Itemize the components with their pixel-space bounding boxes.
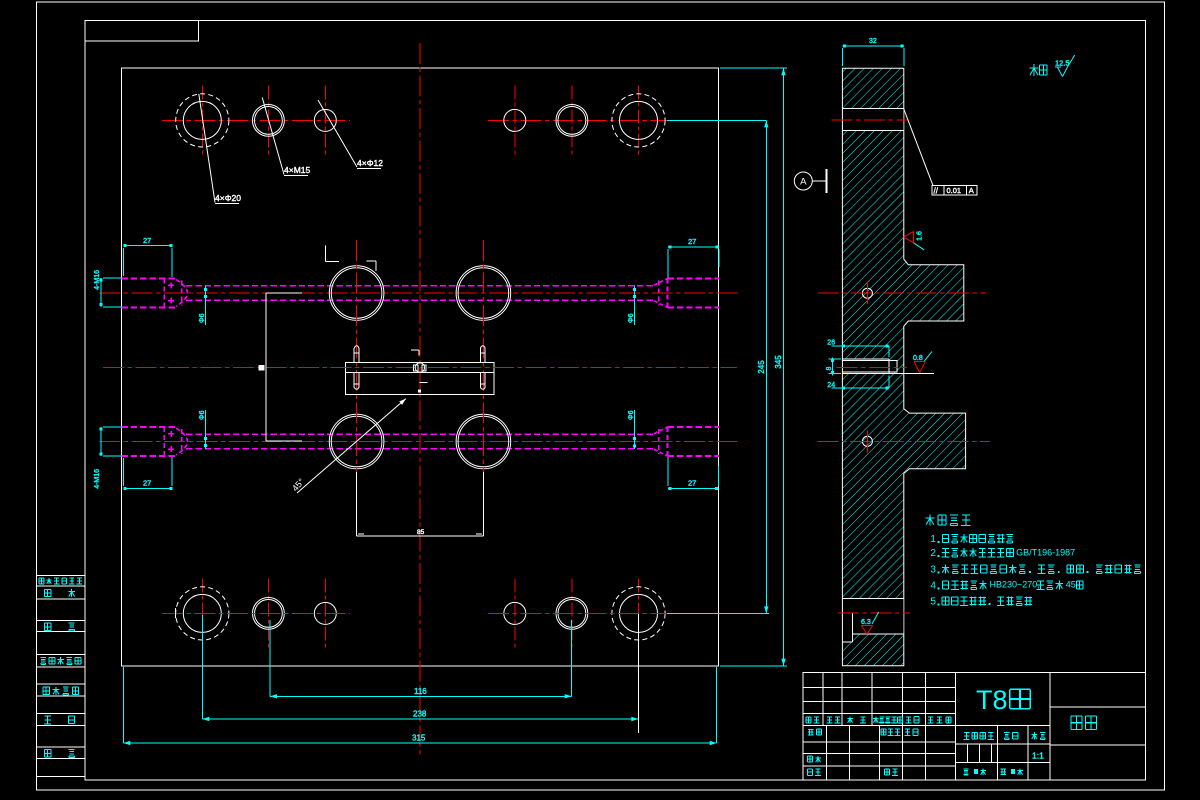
title zhongliang	[1004, 732, 1009, 734]
leader 4xPhi12	[318, 100, 357, 167]
title row shenhe	[808, 755, 813, 757]
title block outline	[803, 673, 1145, 780]
dim 27 top-right	[668, 246, 719, 248]
section core slot centerline	[836, 367, 906, 369]
title header biaoji	[806, 716, 811, 718]
roughness 6.3 at bottom band	[861, 624, 872, 626]
hole P12 bot circle	[504, 602, 526, 624]
dim 32 section top	[843, 45, 904, 47]
title part name xingxin	[1071, 715, 1082, 717]
hole M15 bot circles	[253, 598, 285, 630]
archive strip label ditu-zonghao	[43, 686, 49, 688]
dim 24 section slot bottom	[832, 387, 889, 389]
dim Phi6 row2 right	[633, 410, 635, 449]
hole P12 top circle	[504, 109, 526, 131]
counterbore M16 right y441 wide hidden lines	[668, 426, 720, 428]
dim 8 section slot height	[832, 358, 834, 376]
svg-text:27: 27	[688, 479, 696, 488]
small mark below center	[420, 382, 428, 384]
roughness 1.6 on right edge	[913, 231, 915, 243]
hole M15 top x571 centermark	[571, 85, 573, 155]
hole M15 bot x268 centermark	[267, 578, 269, 648]
guide hole x356 vertical centerline	[356, 240, 358, 505]
counterbore M16 left y441 inner line	[181, 429, 183, 454]
dim Phi6 row1 left	[204, 286, 206, 325]
dim 238 bottom	[202, 718, 638, 720]
svg-text:245: 245	[757, 360, 766, 374]
svg-text:Φ6: Φ6	[199, 410, 206, 420]
svg-text:8: 8	[826, 367, 833, 371]
svg-text:0.8: 0.8	[913, 355, 923, 362]
parallelism frame leader	[904, 109, 933, 186]
counterbore M16 left y293 inner line	[181, 280, 183, 305]
archive strip label ri-qi	[45, 749, 51, 751]
svg-text:4×Φ12: 4×Φ12	[357, 158, 383, 168]
title block right grid	[1050, 706, 1146, 708]
bottom hole row centerline left	[162, 612, 350, 614]
dim Phi6 row1 right	[634, 286, 636, 325]
svg-text://: //	[934, 186, 939, 195]
hole P12 top x514 centermark	[514, 85, 516, 155]
svg-text:T8: T8	[976, 685, 1008, 715]
dim 4-M16 top-left	[100, 278, 102, 307]
title row gongyi	[808, 768, 813, 770]
svg-text:4×M15: 4×M15	[284, 165, 310, 175]
hole P12 bot x514 centermark	[514, 578, 516, 648]
title jieduanbiaoji	[964, 732, 970, 734]
dim 27 bottom-left	[123, 487, 172, 489]
svg-text:32: 32	[869, 38, 877, 45]
core strip rect	[346, 363, 494, 395]
title row sheji	[808, 729, 814, 731]
small filled mark	[418, 389, 421, 392]
svg-text:1:1: 1:1	[1032, 751, 1044, 761]
center locating mark circle	[415, 363, 424, 372]
bottom hole row centerline right	[488, 612, 677, 614]
hole M15 bot x571 centermark	[571, 578, 573, 648]
dim 26 section slot top	[832, 345, 889, 347]
dim 27 bottom-right	[668, 487, 718, 489]
channel y293 centerline	[99, 292, 739, 294]
archive strip label jie-yong-jian-dengji	[39, 577, 44, 579]
svg-text:5: 5	[930, 597, 936, 608]
leader 4xM15	[262, 97, 284, 174]
top hole row centerline left	[162, 119, 350, 121]
counterbore M16 right y441 taper lines	[654, 427, 668, 434]
dim 345 right	[783, 68, 785, 666]
small mark above center	[411, 349, 419, 351]
plate vertical centerline	[419, 43, 421, 758]
partial view bracket 2	[366, 260, 376, 262]
channel y293 hidden lines	[186, 285, 654, 287]
svg-text:238: 238	[413, 710, 427, 719]
archive strip label qian-zi	[45, 715, 51, 717]
dim 315 bottom	[123, 742, 716, 744]
svg-text:27: 27	[143, 479, 151, 488]
title block middle grid	[956, 743, 1050, 745]
title gong zhang di zhang	[964, 768, 969, 770]
title row pizhun	[884, 768, 889, 770]
counterbore M16 right y441 bottom line	[667, 427, 669, 456]
title header nianyueri	[928, 716, 933, 718]
hole P20 top x638 centermark	[638, 85, 640, 155]
leader 4xPhi20	[199, 94, 215, 203]
hole P20 top circles	[620, 101, 658, 139]
archive strip rows	[37, 575, 85, 577]
svg-text:0.01: 0.01	[947, 186, 962, 195]
guide hole x356 y293 circles	[329, 266, 384, 321]
counterbore M16 left y293 wide hidden lines	[121, 278, 176, 280]
svg-text:HB230~270,: HB230~270,	[990, 580, 1040, 590]
core strip inner line	[346, 371, 494, 373]
svg-text:3: 3	[930, 565, 936, 576]
section flange1 centerline	[818, 292, 986, 294]
svg-text:315: 315	[412, 734, 426, 743]
hole P20 bot x638 centermark	[638, 578, 640, 648]
hole P12 top circle	[314, 109, 336, 131]
center locating mark squares	[414, 365, 418, 371]
counterbore M16 left y441 wide hidden lines	[121, 426, 176, 428]
svg-text:4-M16: 4-M16	[94, 270, 101, 290]
dim 27 top-left	[123, 244, 172, 246]
counterbore M16 left y441 drill tip arc	[176, 428, 188, 455]
svg-text:Φ6: Φ6	[199, 313, 206, 323]
ejector pin lower x482	[479, 372, 481, 387]
svg-text:A: A	[969, 186, 974, 195]
counterbore M16 left y293 drill tip arc	[176, 280, 188, 307]
svg-text:27: 27	[143, 236, 151, 245]
frame top-left block	[85, 20, 198, 41]
svg-text:2: 2	[930, 548, 936, 559]
guide hole x356 y441 circles	[329, 414, 384, 469]
dim 238 white extension right	[637, 614, 639, 733]
section core slot	[843, 359, 889, 373]
datum A symbol	[794, 172, 812, 190]
note qiyu (others)	[1033, 64, 1035, 76]
svg-text:26: 26	[827, 340, 835, 347]
svg-text:4-M16: 4-M16	[94, 469, 101, 489]
plate outline	[121, 68, 718, 666]
title row biaozhunhua	[881, 728, 886, 730]
ejector pin upper x356	[353, 348, 355, 363]
hole P20 bot circles	[183, 594, 221, 632]
hole M15 top x268 centermark	[267, 85, 269, 155]
title header genggai wenjianhao	[875, 716, 877, 723]
archive strip label jiu-ditu-zonghao	[40, 656, 46, 658]
svg-text:Φ6: Φ6	[628, 313, 635, 323]
section flange2 centerline	[818, 440, 991, 442]
channel y441 centerline	[99, 441, 739, 443]
counterbore M16 right y293 taper lines	[654, 279, 668, 286]
svg-text:6.3: 6.3	[861, 619, 871, 626]
45 degree leader	[297, 399, 406, 493]
svg-text:4×Φ20: 4×Φ20	[215, 193, 241, 203]
hole P20 bot x202 centermark	[201, 578, 203, 648]
section bottom hole band	[843, 599, 903, 634]
svg-text:27: 27	[688, 237, 696, 246]
hole P20 bot circles	[620, 594, 658, 632]
partial view bracket L	[325, 246, 327, 262]
hole M15 top circles	[253, 105, 285, 137]
archive strip label miao-jiao	[45, 622, 51, 624]
svg-text:A: A	[800, 176, 807, 187]
technical requirements title	[929, 515, 931, 526]
parallelism feature control frame	[932, 186, 977, 195]
hole M15 bot circles	[556, 598, 588, 630]
svg-text:1.6: 1.6	[917, 231, 924, 241]
counterbore M16 right y293 inner line	[658, 280, 660, 305]
section core slot surface line	[842, 373, 933, 375]
dim 245 right	[765, 120, 767, 613]
title block left grid	[803, 687, 955, 689]
core strip centerline	[103, 367, 737, 369]
guide hole x483 y441 circles	[456, 414, 511, 469]
top hole row centerline right	[488, 119, 677, 121]
svg-text:116: 116	[414, 687, 427, 696]
dim 4-M16 bottom-left	[100, 427, 102, 456]
svg-text:GB/T196-1987: GB/T196-1987	[1016, 548, 1075, 558]
title header fenqu	[849, 716, 851, 723]
ejector pin lower x356	[353, 372, 355, 387]
section core slot small step	[889, 361, 897, 373]
counterbore M16 left y293 bottom line	[163, 279, 165, 308]
svg-text:4: 4	[930, 581, 936, 592]
counterbore M16 right y441 inner line	[658, 429, 660, 454]
hole P12 bot circle	[314, 602, 336, 624]
svg-text:345: 345	[774, 355, 783, 369]
section top hole band centerline	[832, 119, 908, 121]
counterbore M16 right y293 bottom line	[667, 279, 669, 308]
roughness 0.8 at slot	[914, 361, 925, 363]
hole P12 bot x325 centermark	[324, 578, 326, 648]
svg-text:85: 85	[417, 529, 425, 536]
dim Phi6 row2 left	[204, 410, 206, 449]
channel spacing extension bracket	[265, 293, 267, 441]
hole P20 top circles	[183, 101, 221, 139]
counterbore M16 left y441 bottom line	[163, 427, 165, 456]
guide span dimension	[355, 472, 357, 536]
section top hole band	[843, 108, 903, 130]
title bili	[1033, 732, 1035, 739]
counterbore M16 left y293 thread marks	[168, 284, 174, 286]
title header qianming	[906, 716, 911, 718]
section flange1 crosshair	[862, 288, 872, 298]
title row qianming2	[905, 728, 910, 730]
ejector pin upper x482	[479, 348, 481, 363]
guide hole x483 y293 circles	[456, 266, 511, 321]
svg-text:24: 24	[827, 382, 835, 389]
title header chushu	[827, 716, 832, 718]
section bottom hole band centerline	[838, 612, 910, 614]
small white tick near bottom P20	[174, 608, 176, 618]
dim 116 bottom	[270, 695, 572, 697]
counterbore M16 left y441 thread marks	[168, 433, 174, 435]
svg-text:1: 1	[930, 534, 936, 545]
hole M15 top circles	[556, 105, 588, 137]
svg-text:Φ6: Φ6	[628, 410, 635, 420]
archive strip label miao-tu	[45, 588, 51, 590]
channel y441 hidden lines	[186, 433, 654, 435]
guide hole x483 vertical centerline	[482, 240, 484, 505]
hole P20 top x202 centermark	[201, 85, 203, 155]
counterbore M16 right y293 wide hidden lines	[668, 278, 720, 280]
svg-text:45: 45	[1066, 580, 1076, 590]
hole P12 top x325 centermark	[324, 85, 326, 155]
section flange2 crosshair	[862, 436, 872, 446]
